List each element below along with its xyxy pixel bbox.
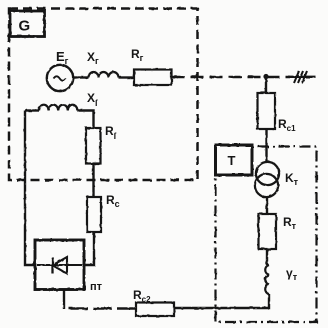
svg-text:Rſ: Rſ (105, 124, 117, 141)
svg-text:Rc1: Rc1 (278, 117, 296, 133)
svg-text:Rc: Rc (106, 193, 120, 209)
svg-text:G: G (19, 18, 31, 35)
svg-text:Rг: Rг (131, 47, 144, 63)
svg-text:Rc2: Rc2 (133, 288, 151, 304)
svg-text:Kт: Kт (285, 171, 299, 187)
svg-text:γт: γт (286, 266, 298, 282)
svg-text:пт: пт (90, 281, 103, 293)
svg-text:T: T (228, 153, 236, 168)
svg-text:Eг: Eг (56, 49, 69, 66)
svg-text:Xſ: Xſ (87, 91, 98, 108)
svg-text:Xг: Xг (87, 50, 99, 66)
svg-text:Rт: Rт (283, 215, 297, 231)
